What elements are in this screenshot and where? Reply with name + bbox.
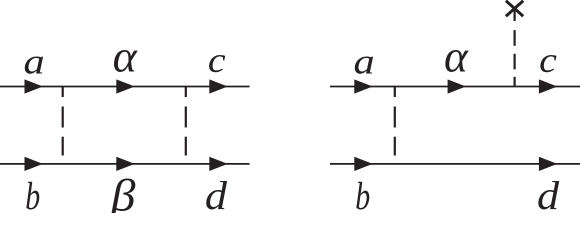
svg-text:α: α [113,31,138,81]
svg-text:a: a [354,41,375,81]
svg-text:α: α [444,32,469,82]
wire: left diagram bottom fermion line [0,163,250,165]
svg-text:β: β [110,171,136,213]
cross insertion X [506,1,523,17]
propagator: dashed vertical to cross insertion [513,9,515,87]
arrow: left bottom segment 3 [209,157,227,171]
svg-text:d: d [205,174,228,213]
arrow: right bottom segment 2 [539,157,557,171]
svg-text:c: c [208,41,226,80]
svg-text:c: c [539,41,557,80]
wire: right diagram top fermion line [330,86,580,88]
propagator: left diagram first dashed vertical [62,87,64,156]
svg-text:d: d [537,174,560,213]
wire: left diagram top fermion line [0,86,250,88]
arrow: right top segment 3 [539,79,557,93]
arrow: left bottom segment 2 [116,157,134,171]
arrow: right top segment 1 [354,79,372,93]
svg-text:b: b [25,174,40,213]
arrow: left top segment 1 [25,79,43,93]
svg-text:b: b [355,174,370,213]
propagator: right diagram dashed vertical [394,87,396,156]
arrow: right top segment 2 [448,79,466,93]
wire: right diagram bottom fermion line [330,163,580,165]
propagator: left diagram second dashed vertical [185,87,187,156]
svg-text:a: a [24,41,45,81]
arrow: right bottom segment 1 [354,157,372,171]
arrow: left top segment 2 [116,79,134,93]
arrow: left bottom segment 1 [25,157,43,171]
arrow: left top segment 3 [209,79,227,93]
